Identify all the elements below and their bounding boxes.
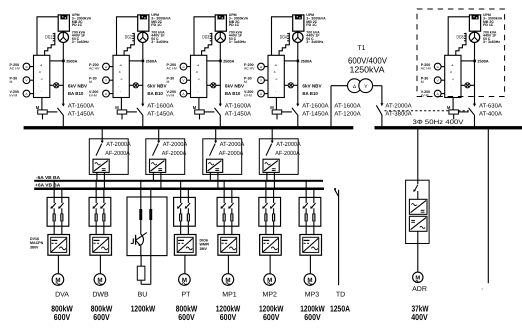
svg-text:M: M xyxy=(447,105,451,110)
svg-text:M: M xyxy=(421,80,424,84)
svg-text:-a: -a xyxy=(119,63,122,67)
svg-text:AC HV: AC HV xyxy=(167,67,178,71)
svg-text:AF-2000A: AF-2000A xyxy=(275,150,300,157)
svg-text:PT: PT xyxy=(182,291,192,298)
svg-text:AT-1200A: AT-1200A xyxy=(334,111,360,118)
svg-text:': ' xyxy=(482,288,483,295)
svg-text:-a: -a xyxy=(451,63,454,67)
svg-text:AT-1450A: AT-1450A xyxy=(147,111,173,118)
svg-text:2500A: 2500A xyxy=(66,59,77,63)
svg-text:600V: 600V xyxy=(220,312,237,322)
svg-text:3MV: 3MV xyxy=(200,247,208,251)
svg-text:AT-1600A: AT-1600A xyxy=(225,103,251,110)
svg-text:kV-M: kV-M xyxy=(244,94,252,98)
svg-text:AC HV: AC HV xyxy=(89,67,100,71)
svg-text:600V: 600V xyxy=(304,312,321,322)
svg-text:1250A: 1250A xyxy=(330,303,350,313)
svg-text:AT-2000A: AT-2000A xyxy=(106,141,131,148)
svg-text:-: - xyxy=(41,89,42,93)
svg-text:-a: -a xyxy=(40,63,43,67)
svg-text:-: - xyxy=(198,89,199,93)
svg-text:kV-M: kV-M xyxy=(89,94,97,98)
svg-text:PD 1C: PD 1C xyxy=(229,23,240,27)
svg-text:AT-1450A: AT-1450A xyxy=(225,111,251,118)
svg-text:AT-2000A: AT-2000A xyxy=(220,141,245,148)
svg-text:DWB: DWB xyxy=(92,291,109,298)
svg-text:380V: 380V xyxy=(30,245,39,249)
svg-text:AC HV: AC HV xyxy=(244,67,255,71)
svg-text:M: M xyxy=(89,80,92,84)
svg-text:M: M xyxy=(244,80,247,84)
svg-text:2500A: 2500A xyxy=(223,59,234,63)
svg-text:BA B10: BA B10 xyxy=(68,91,84,96)
svg-text:DG1: DG1 xyxy=(45,34,52,40)
svg-text:AC HV: AC HV xyxy=(421,67,432,71)
svg-text:TD: TD xyxy=(336,291,345,298)
svg-text:400V: 400V xyxy=(411,312,428,322)
svg-text:kV-M: kV-M xyxy=(167,94,175,98)
svg-text:M: M xyxy=(36,105,40,110)
svg-text:AF-2000A: AF-2000A xyxy=(105,150,130,157)
svg-text:PD 1C: PD 1C xyxy=(72,23,83,27)
svg-text:2500A: 2500A xyxy=(301,59,312,63)
svg-text:AT-3800A: AT-3800A xyxy=(385,111,411,118)
svg-text:AF-2000A: AF-2000A xyxy=(219,150,244,157)
svg-text:.b: .b xyxy=(118,70,121,74)
svg-text:T1: T1 xyxy=(357,45,365,52)
svg-text:3~ 3x60Hz: 3~ 3x60Hz xyxy=(483,40,500,44)
svg-text:-6A VB BA: -6A VB BA xyxy=(36,175,61,180)
svg-text:MP3: MP3 xyxy=(305,291,320,298)
svg-text:-a: -a xyxy=(197,63,200,67)
svg-text:AT-1450A: AT-1450A xyxy=(302,111,328,118)
svg-text:-: - xyxy=(120,89,121,93)
svg-text:AT-1450A: AT-1450A xyxy=(68,111,94,118)
svg-text:+6A VB BA: +6A VB BA xyxy=(35,183,61,188)
svg-text:-: - xyxy=(452,89,453,93)
svg-text:600V: 600V xyxy=(263,312,280,322)
svg-text:-: - xyxy=(275,89,276,93)
svg-text:6kV NBV: 6kV NBV xyxy=(302,84,322,89)
svg-text:BA B10: BA B10 xyxy=(147,91,163,96)
svg-text:AT-2000A: AT-2000A xyxy=(385,103,411,110)
svg-text:AF-2000A: AF-2000A xyxy=(162,150,187,157)
svg-text:M: M xyxy=(115,105,119,110)
svg-text:MP1: MP1 xyxy=(222,291,237,298)
svg-text:DG2: DG2 xyxy=(125,34,132,40)
svg-text:.b: .b xyxy=(450,70,453,74)
svg-text:3Ф 50Hz 400V: 3Ф 50Hz 400V xyxy=(413,119,465,126)
svg-text:3~ 3x60Hz: 3~ 3x60Hz xyxy=(306,40,323,44)
svg-text:600V: 600V xyxy=(93,312,110,322)
svg-text:6kV NBV: 6kV NBV xyxy=(68,84,88,89)
svg-text:BA B10: BA B10 xyxy=(225,91,241,96)
svg-text:1250kVA: 1250kVA xyxy=(350,64,385,74)
svg-text:2500A: 2500A xyxy=(477,59,488,63)
svg-text:PD 1C: PD 1C xyxy=(151,23,162,27)
svg-text:BA B10: BA B10 xyxy=(302,91,318,96)
svg-text:AT-2000A: AT-2000A xyxy=(276,141,301,148)
svg-text:.b: .b xyxy=(196,70,199,74)
svg-text:DG3: DG3 xyxy=(202,34,209,40)
svg-text:M: M xyxy=(270,105,274,110)
svg-text:AT-2000A: AT-2000A xyxy=(163,141,188,148)
svg-text:6kV NBV: 6kV NBV xyxy=(225,84,245,89)
svg-text:3~ 3x60Hz: 3~ 3x60Hz xyxy=(151,40,168,44)
svg-text:DVA: DVA xyxy=(55,291,69,298)
svg-text:.b: .b xyxy=(39,70,42,74)
svg-text:600V: 600V xyxy=(178,312,195,322)
svg-text:AT-1600A: AT-1600A xyxy=(302,103,328,110)
svg-text:PD 1C: PD 1C xyxy=(306,23,317,27)
svg-text:AT-1600A: AT-1600A xyxy=(68,103,94,110)
svg-text:M: M xyxy=(167,80,170,84)
svg-text:PD 1C: PD 1C xyxy=(483,23,494,27)
svg-text:MP2: MP2 xyxy=(263,291,278,298)
svg-text:AT-1600A: AT-1600A xyxy=(147,103,173,110)
svg-text:M: M xyxy=(193,105,197,110)
svg-text:3~ 3x60Hz: 3~ 3x60Hz xyxy=(72,40,89,44)
svg-text:600V: 600V xyxy=(54,312,71,322)
svg-text:M: M xyxy=(10,80,13,84)
svg-text:AT-630A: AT-630A xyxy=(479,103,502,110)
svg-text:AT-1600A: AT-1600A xyxy=(334,103,360,110)
svg-text:DG4: DG4 xyxy=(280,34,287,40)
svg-text:AC HV: AC HV xyxy=(10,67,21,71)
svg-text:ADR: ADR xyxy=(412,286,427,293)
svg-text:6kV NBV: 6kV NBV xyxy=(147,84,167,89)
svg-text:2500A: 2500A xyxy=(146,59,157,63)
svg-text:3~ 3x60Hz: 3~ 3x60Hz xyxy=(229,40,246,44)
svg-text:.b: .b xyxy=(273,70,276,74)
svg-text:BU: BU xyxy=(138,291,148,298)
svg-text:1200kW: 1200kW xyxy=(131,303,156,313)
svg-text:AT-400A: AT-400A xyxy=(479,111,502,118)
svg-text:kV-M: kV-M xyxy=(10,94,18,98)
svg-text:DG5: DG5 xyxy=(457,34,464,40)
svg-text:-a: -a xyxy=(274,63,277,67)
